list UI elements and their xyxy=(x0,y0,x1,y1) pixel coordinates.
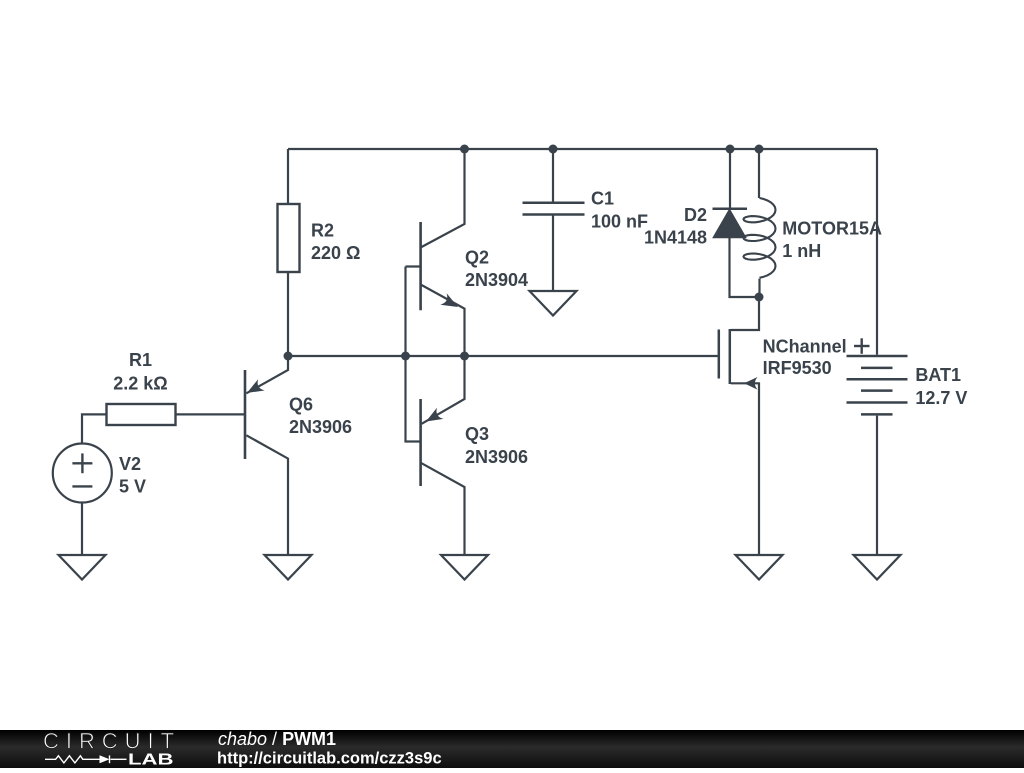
logo resistor diode line xyxy=(45,755,127,763)
wire Q3 collector xyxy=(421,463,465,555)
svg-text:R1: R1 xyxy=(129,350,152,370)
wire D2 top lead xyxy=(729,149,731,209)
svg-text:R2: R2 xyxy=(311,221,334,241)
V2 plus sign xyxy=(72,453,92,486)
arrowhead Q3 emitter xyxy=(426,408,444,422)
svg-text:http://circuitlab.com/czz3s9c: http://circuitlab.com/czz3s9c xyxy=(217,749,442,767)
mosfet channel bar xyxy=(729,329,732,384)
wire Q3 emitter xyxy=(422,356,465,424)
svg-text:2N3906: 2N3906 xyxy=(289,417,352,437)
resistor R2 xyxy=(278,204,300,272)
wire Q6 base lead xyxy=(176,413,245,415)
ground V2 xyxy=(59,555,106,580)
wire motor top lead xyxy=(758,149,760,198)
svg-text:1N4148: 1N4148 xyxy=(644,227,707,247)
wire right rail to battery xyxy=(876,149,878,355)
svg-text:CIRCUIT: CIRCUIT xyxy=(43,728,181,753)
logo diode triangle xyxy=(100,755,110,763)
battery plus sign xyxy=(854,338,870,354)
ground C1 xyxy=(530,291,577,316)
wire mid node rail xyxy=(288,355,718,357)
wire R2 top lead xyxy=(287,149,289,204)
node dot Q2 collector rail xyxy=(460,145,469,154)
svg-text:12.7 V: 12.7 V xyxy=(915,388,967,408)
voltage source V2 circle xyxy=(53,444,112,503)
wire base link Q2 Q3 xyxy=(406,267,421,442)
battery BAT1 xyxy=(847,356,908,414)
wire battery bottom lead xyxy=(876,416,878,555)
wire top rail xyxy=(288,148,877,150)
svg-text:1 nH: 1 nH xyxy=(782,241,821,261)
svg-text:IRF9530: IRF9530 xyxy=(763,358,832,378)
node dot base link xyxy=(401,352,410,361)
svg-text:2.2 kΩ: 2.2 kΩ xyxy=(113,373,167,393)
svg-text:220 Ω: 220 Ω xyxy=(311,243,360,263)
wire motor bottom lead xyxy=(758,279,760,297)
ground BAT1 xyxy=(854,555,901,580)
wire R2 bottom lead to node A xyxy=(287,272,289,356)
svg-text:NChannel: NChannel xyxy=(763,336,847,356)
ground Q6 xyxy=(265,555,312,580)
svg-text:2N3904: 2N3904 xyxy=(465,270,528,290)
transistor Q6 base bar xyxy=(244,370,247,459)
svg-text:Q6: Q6 xyxy=(289,395,313,415)
transistor Q3 base bar xyxy=(419,399,422,486)
wire C1 top lead xyxy=(552,149,554,202)
svg-text:Q3: Q3 xyxy=(465,424,489,444)
svg-text:C1: C1 xyxy=(591,189,614,209)
wire Q6 collector xyxy=(246,435,288,555)
node dot drain motor D2 xyxy=(755,293,764,302)
wire Q2 emitter xyxy=(421,285,465,357)
node dot D2 rail xyxy=(726,145,735,154)
wire mosfet drain xyxy=(731,297,759,330)
inductor MOTOR15A coil xyxy=(744,198,776,278)
svg-text:LAB: LAB xyxy=(128,751,174,768)
svg-text:BAT1: BAT1 xyxy=(915,365,961,385)
arrowhead Q2 emitter xyxy=(440,293,458,307)
node dot A R2 Q6 xyxy=(284,352,293,361)
ground mosfet xyxy=(736,555,783,580)
wire mosfet source xyxy=(731,383,759,555)
node dot motor rail xyxy=(755,145,764,154)
capacitor C1 xyxy=(523,203,585,215)
svg-text:100 nF: 100 nF xyxy=(591,211,648,231)
ground Q3 xyxy=(441,555,488,580)
arrowhead Q6 emitter xyxy=(247,379,265,393)
wire V2 bottom lead xyxy=(81,503,83,556)
svg-text:5 V: 5 V xyxy=(119,477,146,497)
diode D2 xyxy=(713,209,748,238)
svg-text:V2: V2 xyxy=(119,454,141,474)
node dot Q2 Q3 emitters xyxy=(460,352,469,361)
wire V2 top lead xyxy=(82,414,107,443)
transistor Q2 base bar xyxy=(419,222,422,310)
resistor R1 xyxy=(107,404,176,425)
arrowhead mosfet source xyxy=(744,377,758,390)
wire Q2 collector drop xyxy=(421,149,465,248)
svg-text:D2: D2 xyxy=(684,205,707,225)
svg-text:chabo / PWM1: chabo / PWM1 xyxy=(218,729,336,749)
wire C1 bottom lead xyxy=(552,216,554,292)
wire D2 bottom lead xyxy=(730,238,760,298)
svg-text:2N3906: 2N3906 xyxy=(465,447,528,467)
node dot C1 rail xyxy=(549,145,558,154)
mosfet gate bar xyxy=(718,330,721,379)
svg-text:MOTOR15A: MOTOR15A xyxy=(782,219,882,239)
svg-text:Q2: Q2 xyxy=(465,248,489,268)
wire Q6 emitter xyxy=(246,356,288,393)
